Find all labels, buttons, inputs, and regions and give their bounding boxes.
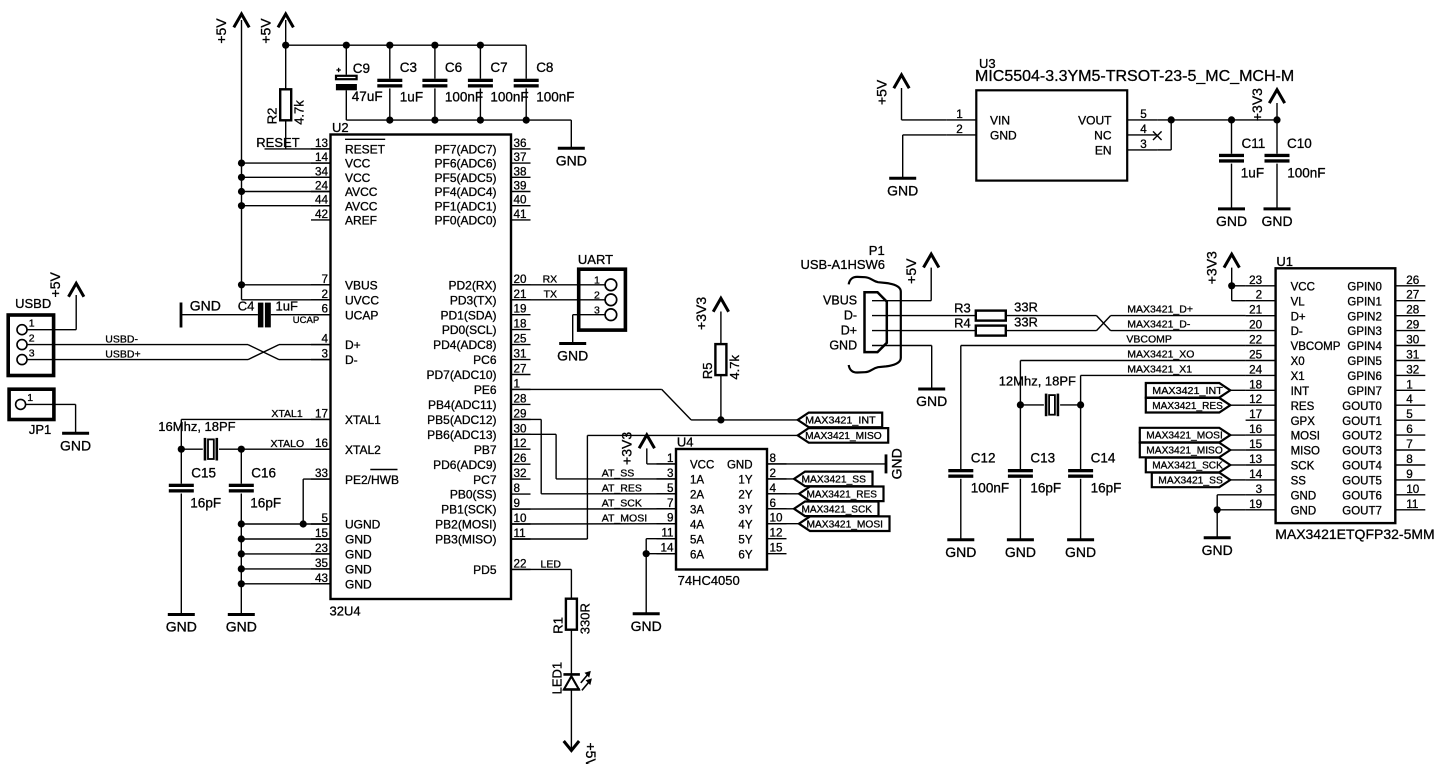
- svg-text:EN: EN: [1095, 144, 1112, 158]
- svg-text:1uF: 1uF: [276, 299, 298, 314]
- svg-text:28: 28: [1406, 304, 1419, 317]
- svg-text:PF4(ADC4): PF4(ADC4): [434, 185, 496, 199]
- svg-text:+3V3: +3V3: [1249, 88, 1265, 121]
- svg-text:X0: X0: [1291, 356, 1305, 368]
- svg-text:MAX3421_SS: MAX3421_SS: [1158, 476, 1223, 487]
- svg-text:5: 5: [1140, 108, 1147, 121]
- svg-text:6: 6: [770, 497, 777, 510]
- svg-text:1uF: 1uF: [1241, 165, 1264, 180]
- svg-text:1: 1: [956, 108, 963, 121]
- svg-text:GPX: GPX: [1291, 416, 1316, 428]
- svg-text:20: 20: [514, 273, 528, 286]
- svg-text:100nF: 100nF: [971, 481, 1009, 496]
- svg-text:VBUS: VBUS: [823, 294, 857, 308]
- svg-text:PC7: PC7: [473, 473, 497, 487]
- svg-text:+3V3: +3V3: [619, 432, 635, 465]
- svg-text:D+: D+: [1291, 311, 1306, 323]
- svg-text:36: 36: [514, 137, 527, 150]
- svg-text:GOUT2: GOUT2: [1342, 431, 1382, 443]
- svg-text:MAX3421_SCK: MAX3421_SCK: [802, 504, 873, 515]
- svg-text:PD0(SCL): PD0(SCL): [442, 323, 497, 337]
- svg-text:PF7(ADC7): PF7(ADC7): [434, 143, 496, 157]
- svg-text:13: 13: [1249, 453, 1262, 466]
- svg-text:2: 2: [321, 288, 328, 301]
- svg-text:13: 13: [315, 137, 328, 150]
- svg-text:10: 10: [1406, 483, 1420, 496]
- svg-text:PD4(ADC8): PD4(ADC8): [433, 338, 496, 352]
- svg-text:AVCC: AVCC: [345, 199, 378, 213]
- svg-text:GND: GND: [226, 619, 257, 635]
- svg-text:C16: C16: [251, 466, 276, 481]
- svg-text:GND: GND: [345, 577, 372, 591]
- svg-text:PB6(ADC13): PB6(ADC13): [427, 428, 496, 442]
- svg-text:10: 10: [770, 512, 784, 525]
- svg-text:34: 34: [315, 165, 329, 178]
- svg-text:C10: C10: [1287, 136, 1312, 151]
- svg-text:PD1(SDA): PD1(SDA): [440, 308, 496, 322]
- svg-text:PF0(ADC0): PF0(ADC0): [434, 214, 496, 228]
- svg-text:4: 4: [321, 333, 328, 346]
- svg-text:22: 22: [1249, 334, 1262, 347]
- svg-text:VBUS: VBUS: [345, 278, 378, 292]
- svg-text:42: 42: [315, 208, 328, 221]
- svg-text:GND: GND: [1261, 213, 1292, 229]
- svg-text:R1: R1: [550, 617, 565, 634]
- svg-text:PD5: PD5: [473, 563, 497, 577]
- svg-text:7: 7: [667, 497, 674, 510]
- svg-text:AREF: AREF: [345, 214, 377, 228]
- svg-text:32: 32: [514, 467, 527, 480]
- svg-text:100nF: 100nF: [536, 90, 574, 105]
- svg-text:30: 30: [1406, 334, 1420, 347]
- svg-text:3: 3: [667, 467, 674, 480]
- svg-text:24: 24: [315, 180, 329, 193]
- svg-text:3: 3: [1256, 483, 1263, 496]
- svg-text:C6: C6: [445, 60, 462, 75]
- svg-text:VL: VL: [1291, 296, 1306, 308]
- svg-text:R2: R2: [265, 108, 280, 125]
- svg-text:C12: C12: [971, 451, 996, 466]
- svg-text:SS: SS: [1291, 476, 1307, 488]
- svg-text:100nF: 100nF: [445, 90, 483, 105]
- svg-text:GND: GND: [345, 533, 372, 547]
- svg-text:5: 5: [321, 512, 328, 525]
- svg-text:C3: C3: [400, 60, 417, 75]
- svg-text:GOUT1: GOUT1: [1342, 416, 1382, 428]
- svg-text:21: 21: [1249, 304, 1262, 317]
- svg-text:11: 11: [1406, 498, 1418, 511]
- svg-text:22: 22: [514, 557, 527, 570]
- svg-text:MAX3421_X1: MAX3421_X1: [1127, 364, 1192, 376]
- svg-text:AT_SS: AT_SS: [602, 468, 634, 480]
- svg-text:MAX3421_INT: MAX3421_INT: [805, 416, 876, 427]
- svg-text:12: 12: [770, 527, 783, 540]
- svg-text:PB4(ADC11): PB4(ADC11): [428, 398, 496, 412]
- svg-text:32U4: 32U4: [330, 604, 361, 619]
- svg-text:AT_RES: AT_RES: [602, 483, 642, 495]
- svg-text:PB2(MOSI): PB2(MOSI): [435, 518, 496, 532]
- svg-text:LED1: LED1: [550, 662, 565, 695]
- svg-text:11: 11: [514, 527, 526, 540]
- svg-text:16: 16: [315, 437, 328, 450]
- svg-text:RX: RX: [543, 274, 558, 286]
- svg-text:33R: 33R: [1014, 315, 1038, 330]
- svg-text:LED: LED: [541, 559, 562, 571]
- svg-text:28: 28: [514, 392, 527, 405]
- svg-text:AT_MOSI: AT_MOSI: [602, 513, 647, 525]
- svg-text:GND: GND: [916, 393, 947, 409]
- svg-text:+3V3: +3V3: [1204, 251, 1220, 284]
- svg-text:GND: GND: [1005, 544, 1036, 560]
- svg-text:PD2(RX): PD2(RX): [448, 278, 496, 292]
- svg-text:+5V: +5V: [873, 79, 889, 105]
- svg-text:6: 6: [1406, 423, 1413, 436]
- svg-text:20: 20: [1249, 319, 1263, 332]
- svg-text:GND: GND: [888, 448, 904, 479]
- svg-text:1: 1: [514, 377, 521, 390]
- svg-text:4: 4: [1406, 393, 1413, 406]
- svg-text:MIC5504-3.3YM5-TRSOT-23-5_MC_M: MIC5504-3.3YM5-TRSOT-23-5_MC_MCH-M: [975, 68, 1294, 85]
- svg-text:UGND: UGND: [345, 518, 381, 532]
- svg-text:5A: 5A: [690, 534, 704, 546]
- svg-text:33: 33: [315, 467, 328, 480]
- svg-text:2: 2: [29, 332, 35, 344]
- svg-text:VBCOMP: VBCOMP: [1291, 341, 1341, 353]
- svg-text:MAX3421_MOSI: MAX3421_MOSI: [807, 519, 884, 530]
- svg-text:4Y: 4Y: [738, 519, 752, 531]
- svg-text:2: 2: [770, 467, 777, 480]
- svg-text:VBCOMP: VBCOMP: [1126, 334, 1172, 346]
- svg-text:TX: TX: [544, 289, 557, 301]
- svg-text:10: 10: [514, 512, 528, 525]
- svg-text:GND: GND: [1202, 542, 1233, 558]
- svg-text:XTALO: XTALO: [271, 438, 305, 450]
- svg-text:MAX3421_XO: MAX3421_XO: [1127, 349, 1194, 361]
- svg-text:X1: X1: [1291, 371, 1305, 383]
- svg-text:MAX3421ETQFP32-5MM: MAX3421ETQFP32-5MM: [1275, 526, 1435, 542]
- svg-text:PB5(ADC12): PB5(ADC12): [427, 413, 496, 427]
- svg-text:GPIN2: GPIN2: [1347, 311, 1382, 323]
- svg-text:3Y: 3Y: [738, 504, 752, 516]
- svg-text:30: 30: [514, 422, 528, 435]
- svg-text:PF1(ADC1): PF1(ADC1): [434, 199, 496, 213]
- svg-text:40: 40: [514, 194, 528, 207]
- svg-text:GPIN7: GPIN7: [1347, 386, 1382, 398]
- svg-text:+5V: +5V: [583, 743, 599, 764]
- svg-text:MAX3421_D-: MAX3421_D-: [1127, 318, 1191, 330]
- svg-text:1A: 1A: [690, 475, 704, 487]
- svg-text:RESET: RESET: [345, 143, 386, 157]
- svg-text:16pF: 16pF: [1091, 481, 1122, 496]
- svg-text:14: 14: [315, 151, 329, 164]
- svg-text:11: 11: [661, 527, 673, 540]
- svg-text:4: 4: [1140, 123, 1147, 136]
- svg-text:GOUT4: GOUT4: [1342, 461, 1382, 473]
- svg-text:+3V3: +3V3: [693, 297, 709, 330]
- svg-text:D+: D+: [345, 338, 361, 352]
- svg-text:12: 12: [1249, 393, 1262, 406]
- svg-text:6A: 6A: [690, 549, 704, 561]
- svg-text:VOUT: VOUT: [1078, 114, 1112, 128]
- svg-text:14: 14: [1249, 468, 1263, 481]
- svg-text:PD7(ADC10): PD7(ADC10): [426, 368, 496, 382]
- svg-text:GND: GND: [166, 619, 197, 635]
- svg-text:7: 7: [321, 273, 328, 286]
- svg-text:MAX3421_SCK: MAX3421_SCK: [1152, 461, 1223, 472]
- svg-text:D-: D-: [844, 309, 857, 323]
- svg-text:VCC: VCC: [1291, 281, 1315, 293]
- svg-text:4.7k: 4.7k: [727, 355, 742, 380]
- svg-text:100nF: 100nF: [1287, 165, 1325, 180]
- svg-text:+5V: +5V: [903, 258, 919, 284]
- svg-text:PB3(MISO): PB3(MISO): [435, 533, 496, 547]
- svg-text:GND: GND: [345, 563, 372, 577]
- svg-text:D-: D-: [1291, 326, 1303, 338]
- svg-text:C11: C11: [1242, 136, 1266, 151]
- svg-text:USB-A1HSW6: USB-A1HSW6: [801, 257, 886, 272]
- svg-text:P1: P1: [869, 243, 885, 258]
- svg-text:VCC: VCC: [345, 171, 371, 185]
- svg-text:1: 1: [667, 452, 674, 465]
- svg-text:GND: GND: [1065, 544, 1096, 560]
- svg-text:4A: 4A: [690, 519, 704, 531]
- svg-text:26: 26: [514, 452, 527, 465]
- svg-text:38: 38: [514, 165, 527, 178]
- svg-text:UART: UART: [578, 252, 613, 267]
- svg-text:GND: GND: [60, 437, 91, 453]
- svg-text:GND: GND: [945, 544, 976, 560]
- svg-text:C4: C4: [238, 299, 255, 314]
- svg-text:32: 32: [1406, 363, 1419, 376]
- svg-text:U4: U4: [677, 435, 694, 450]
- svg-text:19: 19: [1249, 498, 1262, 511]
- svg-text:D+: D+: [841, 324, 857, 338]
- svg-text:GND: GND: [631, 618, 662, 634]
- svg-text:XTAL1: XTAL1: [345, 413, 381, 427]
- svg-text:9: 9: [1406, 468, 1413, 481]
- svg-text:19: 19: [514, 303, 527, 316]
- svg-text:4.7k: 4.7k: [292, 100, 307, 125]
- svg-text:1uF: 1uF: [400, 90, 423, 105]
- svg-text:XTAL1: XTAL1: [271, 408, 302, 420]
- svg-text:5: 5: [1406, 408, 1413, 421]
- svg-text:100nF: 100nF: [490, 90, 528, 105]
- svg-text:2: 2: [1256, 289, 1263, 302]
- svg-text:23: 23: [1249, 274, 1262, 287]
- svg-text:9: 9: [514, 497, 521, 510]
- svg-text:VCC: VCC: [345, 157, 371, 171]
- svg-text:PE6: PE6: [474, 383, 497, 397]
- svg-text:35: 35: [315, 557, 329, 570]
- svg-text:R5: R5: [700, 362, 715, 379]
- svg-text:C7: C7: [490, 60, 507, 75]
- svg-text:MAX3421_RES: MAX3421_RES: [807, 489, 878, 500]
- svg-text:+5V: +5V: [47, 271, 63, 297]
- svg-text:PF6(ADC6): PF6(ADC6): [434, 157, 496, 171]
- svg-text:AT_SCK: AT_SCK: [602, 498, 642, 510]
- svg-text:R4: R4: [954, 315, 971, 330]
- svg-text:7: 7: [1406, 438, 1413, 451]
- svg-text:39: 39: [514, 180, 527, 193]
- svg-text:JP1: JP1: [29, 422, 51, 437]
- svg-text:MAX3421_MISO: MAX3421_MISO: [1146, 446, 1223, 457]
- svg-text:3: 3: [321, 348, 328, 361]
- svg-text:15: 15: [315, 527, 329, 540]
- svg-text:5: 5: [667, 482, 674, 495]
- svg-text:GPIN5: GPIN5: [1347, 356, 1382, 368]
- svg-text:GND: GND: [1291, 505, 1317, 517]
- svg-text:2Y: 2Y: [738, 489, 752, 501]
- svg-text:USBD-: USBD-: [105, 334, 138, 346]
- svg-text:23: 23: [315, 542, 328, 555]
- svg-text:4: 4: [770, 482, 777, 495]
- svg-text:USBD+: USBD+: [105, 349, 140, 361]
- svg-text:16pF: 16pF: [250, 496, 281, 511]
- svg-text:31: 31: [1406, 349, 1419, 362]
- svg-text:44: 44: [315, 194, 329, 207]
- svg-text:GOUT5: GOUT5: [1342, 476, 1382, 488]
- svg-text:PC6: PC6: [473, 353, 497, 367]
- svg-text:27: 27: [1406, 289, 1419, 302]
- svg-text:1: 1: [29, 318, 35, 330]
- svg-text:16Mhz, 18PF: 16Mhz, 18PF: [158, 419, 235, 434]
- svg-text:15: 15: [770, 542, 784, 555]
- svg-text:GOUT0: GOUT0: [1342, 401, 1382, 413]
- svg-text:PB1(SCK): PB1(SCK): [441, 503, 496, 517]
- svg-text:3A: 3A: [690, 504, 704, 516]
- svg-text:PE2/HWB: PE2/HWB: [345, 473, 399, 487]
- svg-text:MAX3421_RES: MAX3421_RES: [1152, 401, 1223, 412]
- svg-text:1: 1: [27, 392, 33, 404]
- svg-text:GPIN3: GPIN3: [1347, 326, 1382, 338]
- svg-text:PB7: PB7: [474, 443, 497, 457]
- svg-text:GND: GND: [556, 153, 587, 169]
- svg-text:MOSI: MOSI: [1291, 431, 1320, 443]
- svg-text:8: 8: [1406, 453, 1413, 466]
- svg-text:1Y: 1Y: [738, 475, 752, 487]
- svg-text:15: 15: [1249, 438, 1263, 451]
- svg-text:31: 31: [514, 348, 527, 361]
- svg-text:GND: GND: [190, 298, 221, 314]
- svg-text:21: 21: [514, 288, 527, 301]
- svg-text:6Y: 6Y: [738, 549, 752, 561]
- svg-text:R3: R3: [954, 300, 971, 315]
- svg-text:U2: U2: [332, 120, 349, 135]
- svg-text:74HC4050: 74HC4050: [678, 573, 740, 588]
- svg-text:2A: 2A: [690, 489, 704, 501]
- svg-text:GPIN4: GPIN4: [1347, 341, 1382, 353]
- svg-text:VIN: VIN: [990, 114, 1010, 128]
- svg-text:41: 41: [514, 208, 527, 221]
- svg-text:MAX3421_SS: MAX3421_SS: [802, 475, 867, 486]
- svg-text:C9: C9: [353, 61, 370, 76]
- svg-text:GND: GND: [727, 460, 753, 472]
- svg-text:6: 6: [321, 303, 328, 316]
- svg-text:8: 8: [514, 482, 521, 495]
- svg-text:MAX3421_INT: MAX3421_INT: [1152, 386, 1223, 397]
- svg-text:GOUT3: GOUT3: [1342, 446, 1382, 458]
- svg-text:GOUT6: GOUT6: [1342, 490, 1382, 502]
- svg-text:XTAL2: XTAL2: [345, 443, 381, 457]
- svg-text:16pF: 16pF: [1030, 481, 1061, 496]
- svg-text:GPIN0: GPIN0: [1347, 281, 1382, 293]
- svg-text:PD6(ADC9): PD6(ADC9): [433, 458, 496, 472]
- svg-text:29: 29: [1406, 319, 1419, 332]
- svg-text:GND: GND: [829, 338, 857, 352]
- svg-text:GND: GND: [1216, 213, 1247, 229]
- svg-text:VCC: VCC: [690, 460, 714, 472]
- svg-text:C14: C14: [1091, 451, 1116, 466]
- svg-text:2: 2: [956, 123, 963, 136]
- svg-text:12Mhz, 18PF: 12Mhz, 18PF: [999, 374, 1076, 389]
- svg-text:PB0(SS): PB0(SS): [450, 488, 497, 502]
- svg-text:GPIN1: GPIN1: [1347, 296, 1382, 308]
- svg-text:MAX3421_MISO: MAX3421_MISO: [805, 431, 882, 442]
- svg-text:AVCC: AVCC: [345, 185, 378, 199]
- svg-text:PF5(ADC5): PF5(ADC5): [434, 171, 496, 185]
- svg-text:17: 17: [1249, 408, 1262, 421]
- svg-text:27: 27: [514, 363, 527, 376]
- svg-text:5Y: 5Y: [738, 534, 752, 546]
- svg-text:RESET: RESET: [256, 135, 299, 150]
- svg-text:GOUT7: GOUT7: [1342, 505, 1382, 517]
- svg-text:INT: INT: [1291, 386, 1310, 398]
- svg-text:47uF: 47uF: [352, 89, 383, 104]
- svg-text:26: 26: [1406, 274, 1419, 287]
- svg-text:8: 8: [770, 452, 777, 465]
- svg-text:GND: GND: [990, 129, 1017, 143]
- svg-text:MAX3421_MOSI: MAX3421_MOSI: [1146, 431, 1223, 442]
- svg-text:+5V: +5V: [213, 18, 229, 44]
- svg-text:GND: GND: [557, 348, 588, 364]
- svg-text:29: 29: [514, 407, 527, 420]
- svg-text:25: 25: [1249, 349, 1263, 362]
- svg-text:C13: C13: [1030, 451, 1055, 466]
- svg-text:37: 37: [514, 151, 527, 164]
- svg-text:C15: C15: [191, 466, 216, 481]
- svg-text:12: 12: [514, 437, 527, 450]
- svg-text:25: 25: [514, 333, 528, 346]
- svg-text:33R: 33R: [1014, 300, 1038, 315]
- svg-text:RES: RES: [1291, 401, 1315, 413]
- svg-text:UCAP: UCAP: [293, 315, 319, 326]
- svg-text:330R: 330R: [577, 603, 592, 634]
- svg-text:USBD: USBD: [15, 296, 51, 311]
- svg-text:GND: GND: [345, 548, 372, 562]
- svg-text:NC: NC: [1094, 129, 1112, 143]
- svg-text:U1: U1: [1276, 254, 1293, 269]
- svg-text:MISO: MISO: [1291, 446, 1320, 458]
- svg-text:18: 18: [1249, 378, 1262, 391]
- svg-text:16: 16: [1249, 423, 1262, 436]
- svg-text:3: 3: [1140, 138, 1147, 151]
- svg-text:1: 1: [1406, 378, 1413, 391]
- svg-text:GND: GND: [1291, 490, 1317, 502]
- svg-text:14: 14: [660, 542, 674, 555]
- svg-text:3: 3: [29, 347, 35, 359]
- svg-text:+5V: +5V: [257, 18, 273, 44]
- svg-text:D-: D-: [345, 353, 358, 367]
- svg-text:SCK: SCK: [1291, 461, 1315, 473]
- svg-text:GND: GND: [887, 182, 918, 198]
- svg-text:17: 17: [315, 407, 328, 420]
- svg-text:UCAP: UCAP: [345, 308, 378, 322]
- svg-text:C8: C8: [536, 60, 553, 75]
- svg-text:16pF: 16pF: [190, 496, 221, 511]
- svg-text:24: 24: [1249, 363, 1263, 376]
- svg-text:UVCC: UVCC: [345, 293, 379, 307]
- svg-text:43: 43: [315, 572, 328, 585]
